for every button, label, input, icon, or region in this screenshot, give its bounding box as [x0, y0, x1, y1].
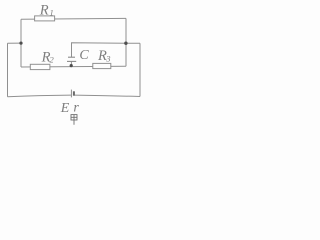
svg-text:C: C [79, 48, 89, 63]
wire right inner vertical [125, 18, 127, 66]
svg-text:1: 1 [50, 7, 54, 17]
wire left connector [8, 42, 22, 44]
wire right connector [126, 42, 140, 44]
wire right outer vertical [139, 43, 141, 96]
resistor R3 [93, 63, 111, 68]
svg-text:3: 3 [105, 54, 110, 64]
node junction capacitor [70, 64, 73, 67]
wire bottom left [8, 95, 71, 97]
battery E long plate [70, 90, 72, 98]
wire bottom right [74, 95, 140, 96]
wire capacitor top [72, 43, 127, 58]
capacitor C plates [68, 56, 75, 58]
resistor R2 [30, 64, 50, 69]
wire top branch [21, 17, 126, 20]
wire capacitor bottom lead [70, 61, 72, 66]
svg-text:r: r [73, 100, 79, 115]
resistor R1 [35, 16, 55, 21]
svg-text:2: 2 [50, 54, 55, 64]
svg-text:E: E [60, 101, 70, 116]
wire left inner vertical [20, 19, 22, 67]
battery E short plate [73, 91, 75, 95]
svg-text:R: R [39, 3, 49, 19]
node junction right [124, 42, 127, 45]
node junction left [19, 42, 22, 45]
wire middle branch [21, 65, 126, 68]
wire left outer vertical [7, 43, 9, 96]
label jia (figure A) [71, 115, 77, 125]
